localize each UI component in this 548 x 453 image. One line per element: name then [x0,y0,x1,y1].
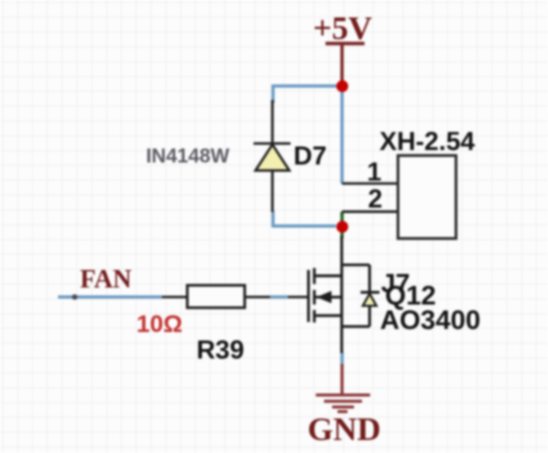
svg-text:1: 1 [367,157,381,187]
svg-text:R39: R39 [197,335,245,365]
svg-text:D7: D7 [294,141,327,171]
svg-text:+5V: +5V [313,11,372,47]
svg-text:IN4148W: IN4148W [146,146,229,168]
svg-text:XH-2.54: XH-2.54 [380,126,476,156]
svg-text:AO3400: AO3400 [380,305,481,335]
svg-text:2: 2 [368,184,382,214]
svg-text:10Ω: 10Ω [137,311,183,338]
svg-text:FAN: FAN [80,265,132,294]
svg-text:GND: GND [308,412,381,448]
